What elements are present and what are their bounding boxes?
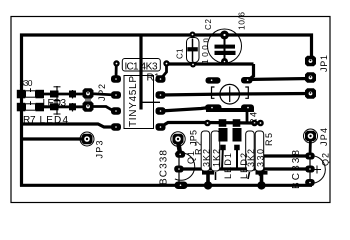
connector JP5 pad [171, 132, 185, 146]
wire Q1 to Q2 base bus [179, 167, 310, 170]
wire JP2 top to IC pin2 [88, 94, 116, 96]
wire R3 bottom stub [215, 172, 217, 180]
wire IC pin5 to S1 bottom-left [161, 108, 210, 112]
wire pin4 to left rail [22, 124, 115, 127]
svg-text:LED2: LED2 [239, 153, 249, 179]
connector JP4 pad [304, 129, 318, 143]
connector JP1 pads [305, 56, 316, 99]
svg-text:10/6: 10/6 [237, 12, 247, 30]
connector JP2 pads [83, 88, 94, 112]
wire R4 bottom stub [248, 172, 250, 179]
wire stub to pin5 [141, 101, 160, 103]
resistor R3 outline [211, 131, 220, 171]
resistor R2 top pad [204, 120, 211, 127]
resistor R2 bottom pad [202, 171, 214, 190]
resistor R7 outline [26, 104, 36, 110]
resistor R7 pads [17, 103, 44, 112]
svg-text:JP2: JP2 [97, 84, 107, 101]
resistor R4 outline [246, 131, 255, 171]
resistor R1 outline [122, 59, 160, 72]
wire JP5 to Q1 [178, 141, 180, 153]
resistor R1 pads [113, 60, 119, 66]
svg-text:4K3: 4K3 [141, 62, 158, 73]
svg-text:BC338: BC338 [159, 150, 170, 185]
svg-text:LED3: LED3 [43, 98, 67, 109]
switch S1 pads [205, 77, 254, 111]
wire C bus down to S1 [249, 64, 254, 80]
resistor R5 top pad [251, 120, 258, 127]
wire JP3 to left rail [22, 137, 86, 140]
svg-text:JP1: JP1 [319, 55, 329, 72]
transistor Q1 pads [174, 151, 187, 189]
LED2 body and pads [233, 119, 242, 150]
wire IC pin4 area to resistor bus [161, 123, 261, 128]
svg-text:LED4: LED4 [40, 115, 69, 126]
svg-text:LED1: LED1 [223, 153, 233, 179]
svg-text:Q2: Q2 [321, 153, 331, 166]
wire JP4 to Q2 [309, 138, 312, 155]
svg-text:C1: C1 [176, 48, 185, 59]
wire R1/C bus horizontal [167, 62, 254, 65]
wire bottom bus [20, 184, 312, 187]
svg-text:TINY45LP: TINY45LP [128, 76, 139, 127]
LED3 pads and cross [50, 86, 76, 102]
svg-text:IC1: IC1 [125, 62, 139, 73]
svg-text:1K2: 1K2 [212, 149, 222, 167]
svg-text:C2: C2 [204, 18, 213, 30]
resistor R5 outline [255, 131, 264, 171]
svg-text:BC338: BC338 [291, 150, 302, 189]
board outline [11, 17, 330, 203]
IC U1 pads [111, 75, 166, 131]
LED4 pads and cross [50, 100, 76, 115]
svg-text:R1: R1 [147, 73, 160, 84]
transistor Q2 outline [306, 156, 326, 184]
wire IC pin6 through S1 to JP1 pin3 [161, 94, 311, 96]
capacitor C1 outline [187, 38, 200, 63]
capacitor C1 pads [190, 32, 196, 38]
svg-text:JP4: JP4 [319, 128, 329, 146]
resistor R5 bottom pad [256, 171, 268, 190]
svg-text:JP3: JP3 [95, 141, 105, 159]
svg-text:330: 330 [256, 149, 266, 167]
wire Q2 top to R5 [260, 156, 311, 176]
transistor Q2 pads [305, 153, 315, 187]
svg-text:330: 330 [20, 78, 33, 88]
wire JP2 bottom to IC pin3 [88, 107, 116, 112]
svg-text:R7: R7 [23, 115, 36, 126]
IC U1 outline [124, 76, 154, 129]
wire IC center vertical [139, 34, 142, 110]
wire S1 bottom bar [206, 108, 254, 112]
wire R1 left elbow to IC pin [115, 64, 118, 80]
LED1 body and pads [219, 119, 228, 150]
resistor R2 outline [201, 131, 210, 171]
resistor R6 outline [26, 91, 36, 97]
wire R7 row [23, 105, 86, 108]
svg-text:Q1: Q1 [186, 151, 196, 164]
wire R6 row [23, 93, 86, 96]
transistor Q1 outline [175, 153, 195, 181]
wire GND ring left/top/right [22, 35, 312, 187]
connector JP3 pad [80, 132, 94, 146]
capacitor C2 pads [220, 31, 229, 40]
wire LED2 stub [236, 145, 238, 169]
svg-text:3K2: 3K2 [202, 149, 212, 167]
capacitor C2 outline [208, 29, 242, 63]
resistor R6 pads [17, 90, 44, 99]
wire R1 right elbow to IC pin [161, 64, 167, 79]
wire LED1 stub [222, 145, 223, 169]
wire S1 to JP1 pin2 [248, 79, 311, 80]
wire R4 stub [246, 111, 249, 122]
switch S1 outline [212, 84, 249, 104]
